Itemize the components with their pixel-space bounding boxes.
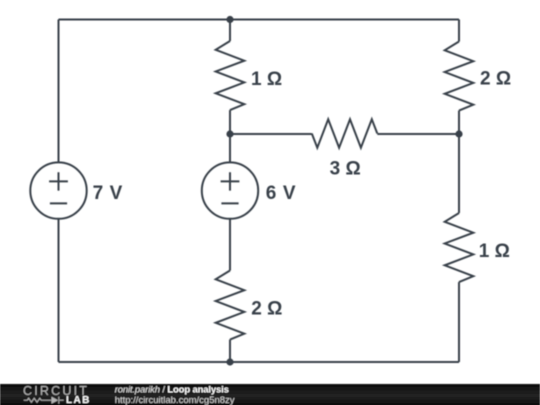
svg-text:3 Ω: 3 Ω (330, 159, 361, 180)
svg-text:LAB: LAB (66, 395, 91, 405)
wire R3 to node B (377, 133, 459, 135)
V1 plus sign (49, 172, 68, 190)
node B junction (455, 130, 462, 137)
V1 minus sign (50, 202, 67, 204)
wire right upper lead (458, 20, 460, 42)
V2 plus sign (221, 172, 240, 190)
resistor R1 1ohm middle (216, 41, 245, 110)
wire R1 to node A (229, 110, 231, 134)
wire R4 to bottom node (229, 340, 231, 362)
svg-text:7 V: 7 V (93, 183, 123, 204)
wire top (59, 19, 460, 21)
logo diode triangle (52, 397, 59, 404)
wire 6V bottom to R4 (229, 219, 231, 271)
V2 minus sign (221, 202, 238, 204)
voltage source V2 6V circle (202, 162, 258, 218)
svg-text:http://circuitlab.com/cg5n8zy: http://circuitlab.com/cg5n8zy (115, 395, 235, 405)
wire node A to 6V top (229, 134, 231, 162)
wire left upper (58, 20, 60, 163)
svg-text:2 Ω: 2 Ω (251, 299, 282, 320)
svg-text:1 Ω: 1 Ω (251, 69, 282, 90)
wire node B to R5 (458, 134, 460, 213)
resistor R2 2ohm right top (445, 42, 474, 111)
resistor R4 2ohm middle bottom (216, 271, 245, 340)
resistor R5 1ohm right bottom (445, 213, 474, 282)
wire node A to R3 (230, 133, 312, 135)
wire middle top lead (229, 20, 231, 42)
svg-text:1 Ω: 1 Ω (479, 241, 510, 262)
voltage source V1 7V circle (30, 162, 86, 218)
logo resistor-diode glyph (24, 397, 64, 404)
node junction top (226, 16, 233, 23)
node junction bottom (226, 358, 233, 365)
wire left lower (58, 219, 60, 362)
wire R5 to bottom right corner (458, 282, 460, 362)
svg-text:6 V: 6 V (266, 183, 296, 204)
svg-text:ronit.parikh / Loop analysis: ronit.parikh / Loop analysis (115, 384, 229, 395)
node A junction (226, 130, 233, 137)
svg-text:2 Ω: 2 Ω (480, 69, 511, 90)
wire bottom (59, 361, 460, 363)
wire R2 to node B (458, 111, 460, 134)
resistor R3 3ohm horizontal (312, 119, 378, 147)
